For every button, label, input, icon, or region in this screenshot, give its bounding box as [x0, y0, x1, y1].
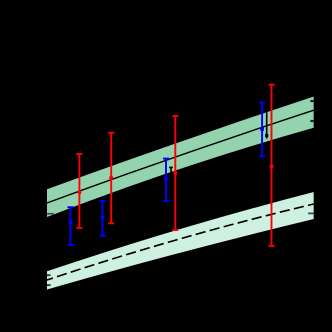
left minor tick y=275.2 — [47, 274, 51, 276]
red errorbar R2 — [108, 133, 114, 224]
blue errorbar B3 — [163, 159, 169, 202]
red errorbar R4 — [269, 85, 275, 246]
black errorbar K4 (third dataset, visible over band) — [265, 104, 269, 139]
lower band dashed center line — [47, 204, 314, 280]
black errorbar K3 (third dataset, visible over band) — [169, 167, 173, 185]
left minor tick y=285.1 — [47, 284, 51, 286]
blue errorbar B4 — [259, 103, 265, 157]
lower confidence band (pale mint) — [47, 192, 314, 290]
right minor tick y=121.0 — [310, 120, 314, 122]
right minor tick y=101.0 — [310, 100, 314, 102]
blue errorbar B2 — [100, 201, 106, 236]
axis tick marks (translucent black, visible over bands) — [47, 101, 314, 285]
red errorbar R3 — [172, 116, 178, 230]
right major tick y=213.4 — [308, 212, 314, 214]
upper confidence band (light green) — [47, 97, 314, 218]
upper band solid center line — [47, 110, 314, 203]
left major tick y=213.8 — [47, 213, 54, 215]
blue errorbar B1 — [68, 207, 74, 245]
red errorbar R1 — [76, 154, 82, 228]
